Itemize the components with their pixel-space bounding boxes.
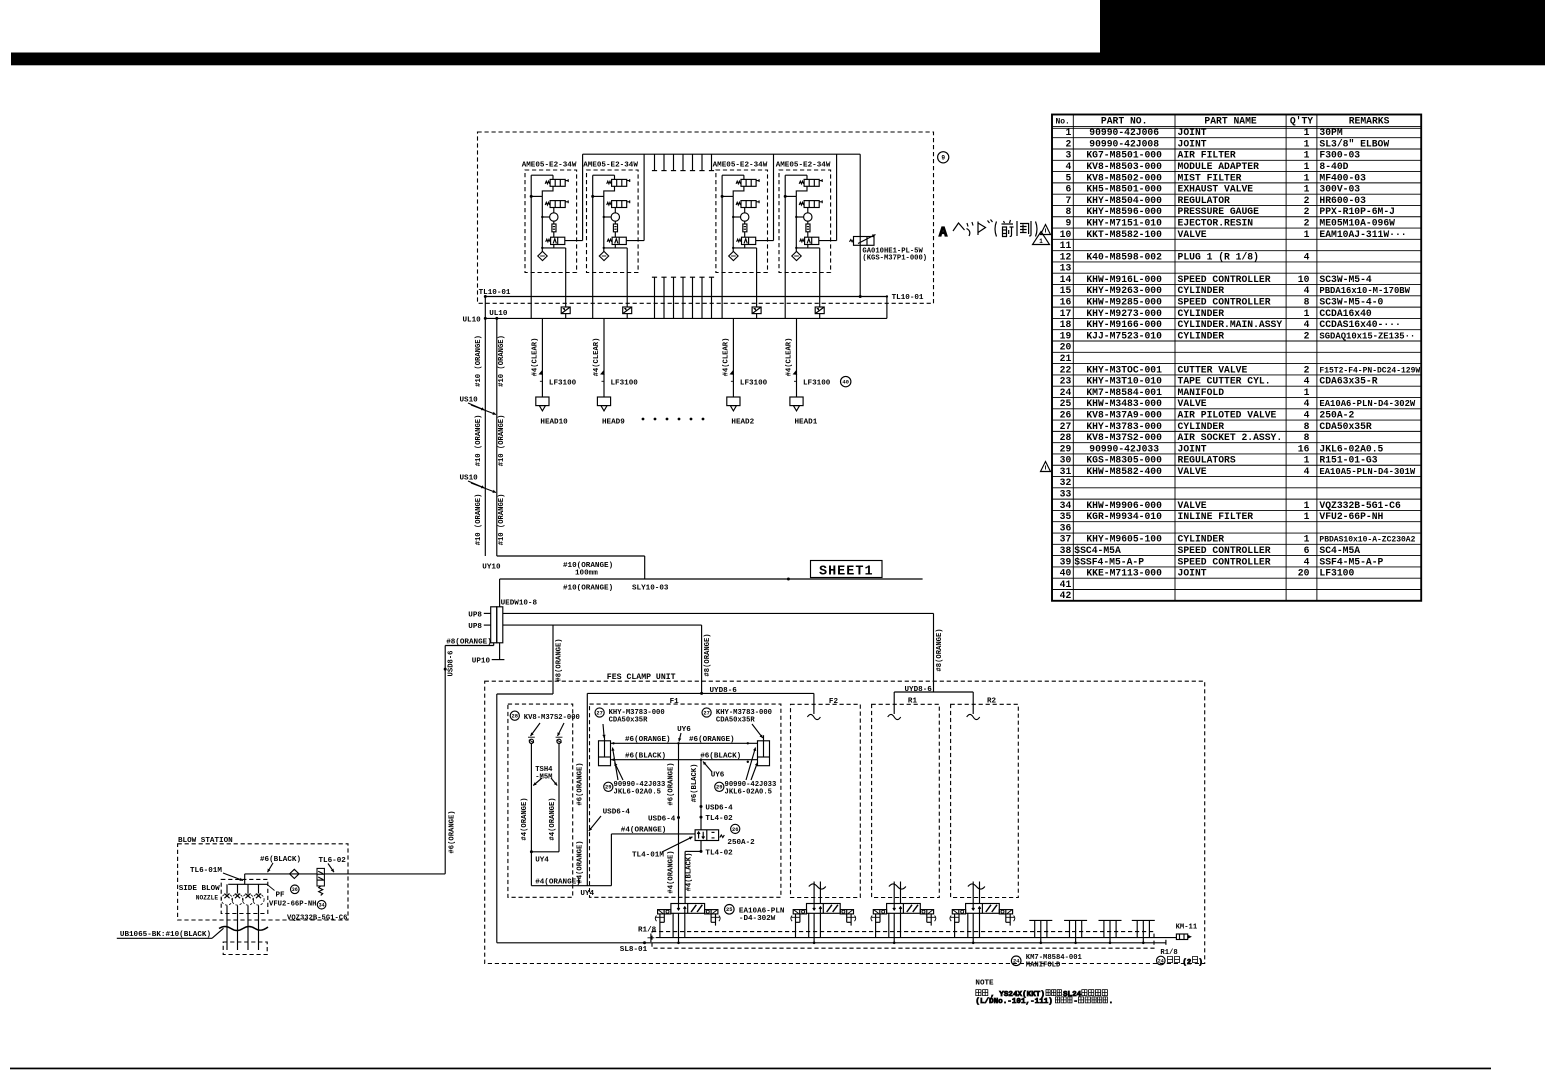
svg-text:1: 1: [1304, 387, 1310, 398]
wire UP8 lower run: [503, 624, 702, 626]
svg-text:#6(ORANGE): #6(ORANGE): [668, 762, 676, 805]
svg-text:EAM10AJ-311W···: EAM10AJ-311W···: [1319, 229, 1406, 240]
joint KM-11: [1166, 924, 1198, 945]
svg-text:AIR PILOTED VALVE: AIR PILOTED VALVE: [1178, 409, 1277, 420]
filter VFU2-66P-NH: [268, 868, 348, 922]
svg-text:AME05-E2-34W: AME05-E2-34W: [522, 162, 577, 170]
svg-text:12: 12: [1060, 251, 1072, 262]
svg-text:#10(ORANGE): #10(ORANGE): [563, 585, 613, 593]
wire UYD8-6 header F1-F2: [587, 693, 814, 885]
svg-text:KHY-M3783-000: KHY-M3783-000: [1086, 421, 1162, 432]
svg-text:#4(CLEAR): #4(CLEAR): [722, 338, 730, 377]
svg-text:#6(ORANGE): #6(ORANGE): [689, 736, 735, 744]
svg-text:UEDW10-8: UEDW10-8: [501, 599, 538, 607]
joint labels 90990-42J033 right: [715, 748, 777, 797]
svg-text:NOTE: NOTE: [975, 979, 994, 987]
manifold solid rail: [656, 937, 1177, 939]
svg-text:4: 4: [1304, 285, 1310, 296]
svg-text:29: 29: [605, 785, 611, 791]
wire #8 orange to blow station: [444, 639, 494, 874]
svg-text:#10 (ORANGE): #10 (ORANGE): [498, 494, 506, 546]
svg-text:4: 4: [1304, 556, 1310, 567]
svg-text:2: 2: [1304, 206, 1310, 217]
svg-text:JOINT: JOINT: [1178, 127, 1207, 138]
wire TL6 line: [190, 856, 445, 881]
node UY6 upper: [677, 726, 691, 745]
svg-text:41: 41: [1060, 579, 1072, 590]
feed drop R2: [967, 692, 980, 720]
svg-text:31: 31: [1060, 466, 1072, 477]
svg-text:4: 4: [1065, 161, 1071, 172]
node US10 lower: [460, 475, 497, 493]
svg-text:11: 11: [1060, 240, 1072, 251]
svg-text:R151-01-G3: R151-01-G3: [1319, 455, 1377, 466]
svg-text:CYLINDER: CYLINDER: [1178, 534, 1225, 545]
svg-text:KG7-M8501-000: KG7-M8501-000: [1086, 150, 1162, 161]
A-head enclosure dashed box: [478, 132, 934, 303]
svg-text:1: 1: [1304, 500, 1310, 511]
svg-text:#4(CLEAR): #4(CLEAR): [593, 338, 601, 377]
svg-text:14: 14: [1060, 274, 1072, 285]
head drop HEAD1: [786, 318, 831, 426]
solenoid valve group 3 AME05-E2-34W: [713, 154, 774, 318]
svg-text:EXHAUST VALVE: EXHAUST VALVE: [1178, 184, 1254, 195]
svg-text:#10 (ORANGE): #10 (ORANGE): [475, 494, 483, 546]
svg-text:#4(ORANGE): #4(ORANGE): [549, 797, 557, 840]
svg-text:EJECTOR.RESIN: EJECTOR.RESIN: [1178, 217, 1254, 228]
parts table rows: [1060, 127, 1421, 601]
svg-text:.: .: [1109, 998, 1114, 1006]
svg-text:#6(BLACK): #6(BLACK): [700, 752, 741, 760]
svg-text:15: 15: [1060, 285, 1072, 296]
svg-text:9: 9: [941, 155, 945, 162]
wire UP10 stub: [472, 643, 505, 666]
head drop HEAD9: [593, 318, 638, 426]
svg-text:VALVE: VALVE: [1178, 229, 1207, 240]
svg-text:JKL6-02A0.5: JKL6-02A0.5: [614, 789, 661, 797]
svg-text:F300-03: F300-03: [1319, 150, 1360, 161]
wire UL10 bus: [463, 310, 887, 324]
svg-text:SGDAQ10x15-ZE135··: SGDAQ10x15-ZE135··: [1319, 331, 1415, 341]
svg-text:#4(CLEAR): #4(CLEAR): [531, 338, 539, 377]
feed drop F2: [807, 693, 820, 719]
svg-text:28: 28: [512, 714, 518, 720]
svg-text:TL10-01: TL10-01: [892, 294, 924, 302]
svg-text:1: 1: [1304, 172, 1310, 183]
svg-text:KHY-M9166-000: KHY-M9166-000: [1086, 319, 1162, 330]
svg-text:UP8: UP8: [468, 623, 482, 631]
inline filter diamond: [290, 869, 299, 878]
svg-text:HEAD2: HEAD2: [731, 418, 754, 426]
svg-text:CYLINDER: CYLINDER: [1178, 285, 1225, 296]
label USD6-4 left: [589, 809, 631, 832]
solenoid valve V4 EA10A6: [950, 904, 1015, 945]
svg-text:#4(ORANGE): #4(ORANGE): [521, 797, 529, 840]
svg-text:KHY-M3T10-010: KHY-M3T10-010: [1086, 376, 1162, 387]
svg-text:LF3100: LF3100: [611, 379, 639, 387]
svg-text:8: 8: [1304, 297, 1310, 308]
svg-text:#4(ORANGE): #4(ORANGE): [535, 878, 581, 886]
svg-text:27: 27: [596, 710, 602, 716]
svg-text:R1/8: R1/8: [638, 926, 657, 934]
svg-text:AIR SOCKET 2.ASSY.: AIR SOCKET 2.ASSY.: [1178, 432, 1283, 443]
wire #6 black drop: [691, 760, 733, 830]
table caution triangle row10: [1041, 225, 1051, 235]
svg-text:36: 36: [1060, 522, 1072, 533]
svg-text:32: 32: [1060, 477, 1072, 488]
svg-text:24: 24: [1060, 387, 1072, 398]
svg-text:VQZ332B-5G1-C6: VQZ332B-5G1-C6: [1319, 500, 1401, 511]
svg-text:#10 (ORANGE): #10 (ORANGE): [498, 335, 506, 387]
parts table header: [1055, 116, 1389, 127]
svg-text:KGR-M9934-010: KGR-M9934-010: [1086, 511, 1162, 522]
svg-text:MIST FILTER: MIST FILTER: [1178, 172, 1242, 183]
svg-text:AIR FILTER: AIR FILTER: [1178, 150, 1236, 161]
svg-text:1: 1: [1039, 238, 1043, 245]
svg-text:LF3100: LF3100: [1319, 568, 1354, 579]
svg-text:42: 42: [1060, 590, 1072, 601]
svg-text:KV8-M37S2-000: KV8-M37S2-000: [524, 714, 580, 722]
svg-text:CDA50x35R: CDA50x35R: [716, 716, 756, 724]
SHEET1 reference box: [811, 561, 883, 580]
svg-text:KV8-M8502-000: KV8-M8502-000: [1086, 172, 1162, 183]
svg-text:2: 2: [1304, 330, 1310, 341]
wire #6 orange drop: [648, 743, 680, 904]
svg-text:-M5M: -M5M: [535, 773, 552, 781]
NOTE text: [975, 979, 1113, 1006]
svg-text:6: 6: [1304, 545, 1310, 556]
svg-text:REGULATORS: REGULATORS: [1178, 455, 1236, 466]
svg-text:33: 33: [1060, 489, 1072, 500]
svg-text:#6(BLACK): #6(BLACK): [260, 856, 301, 864]
svg-text:PLUG 1 (R 1/8): PLUG 1 (R 1/8): [1178, 251, 1259, 262]
manifold stub 1: [1029, 920, 1052, 944]
svg-text:#4(ORANGE): #4(ORANGE): [668, 850, 676, 893]
wire #6 black cylinder line: [611, 752, 758, 763]
lower stub ticks to UL10: [652, 277, 714, 318]
svg-text:EA10A5-PLN-D4-301W: EA10A5-PLN-D4-301W: [1319, 467, 1416, 477]
manifold label KM7-M8584-001: [1011, 954, 1082, 969]
svg-text:USD6-4: USD6-4: [705, 804, 733, 812]
svg-text:No.: No.: [1055, 118, 1069, 127]
svg-text:21: 21: [1060, 353, 1072, 364]
svg-text:VQZ332B-5G1-C6: VQZ332B-5G1-C6: [287, 915, 347, 923]
manifold stub 2: [1064, 920, 1087, 944]
svg-text:CDA63x35-R: CDA63x35-R: [1319, 376, 1377, 387]
head drop HEAD10: [531, 318, 576, 426]
svg-text:UP8: UP8: [468, 611, 482, 619]
svg-text:TL4-02: TL4-02: [705, 849, 733, 857]
svg-text:KV8-M8503-000: KV8-M8503-000: [1086, 161, 1162, 172]
svg-text:AME05-E2-34W: AME05-E2-34W: [776, 162, 831, 170]
tubes TSH4-M5M: [521, 743, 559, 864]
svg-text:26: 26: [732, 827, 738, 833]
svg-text:PBDAS10x10-A-ZC230A2: PBDAS10x10-A-ZC230A2: [1319, 536, 1415, 545]
svg-text:KV8-M37S2-000: KV8-M37S2-000: [1086, 432, 1162, 443]
svg-text:KHY-M3TOC-001: KHY-M3TOC-001: [1086, 364, 1162, 375]
wire #6 orange cylinder line: [611, 736, 758, 745]
svg-text:34: 34: [319, 903, 325, 909]
svg-text:4: 4: [1304, 251, 1310, 262]
svg-text:8-40D: 8-40D: [1319, 161, 1348, 172]
top bus stub ticks: [652, 154, 714, 170]
break and drop R1: [889, 882, 906, 904]
svg-text:25: 25: [726, 907, 732, 913]
wire TL4-02 to black drop: [685, 841, 733, 904]
svg-text:KHY-M8504-000: KHY-M8504-000: [1086, 195, 1162, 206]
svg-text:CDA50x35R: CDA50x35R: [609, 716, 649, 724]
svg-text:#4(BLACK): #4(BLACK): [686, 853, 694, 892]
svg-text:18: 18: [1060, 319, 1072, 330]
node US10 upper: [460, 397, 497, 415]
dashed box air socket group: [508, 704, 573, 897]
svg-text:19: 19: [1060, 330, 1072, 341]
svg-text:USD6-4: USD6-4: [603, 809, 631, 817]
svg-text:100mm: 100mm: [575, 570, 598, 578]
svg-text:4: 4: [1304, 398, 1310, 409]
svg-text:1: 1: [1304, 184, 1310, 195]
solenoid valve V3 EA10A6: [871, 904, 936, 945]
svg-text:5: 5: [1065, 172, 1071, 183]
svg-text:1: 1: [1304, 455, 1310, 466]
svg-text:UYD8-6: UYD8-6: [905, 686, 933, 694]
solenoid valve V2 EA10A6: [791, 904, 856, 945]
svg-text:28: 28: [1060, 432, 1072, 443]
svg-text:13: 13: [1060, 263, 1072, 274]
cylinder KHY-M3783-000 right: [702, 708, 772, 766]
FES CLAMP UNIT enclosure: [485, 673, 1205, 963]
svg-text:SIDE BLOW: SIDE BLOW: [179, 885, 220, 893]
svg-text:CYLINDER.MAIN.ASSY: CYLINDER.MAIN.ASSY: [1178, 319, 1283, 330]
svg-text:HEAD9: HEAD9: [602, 418, 625, 426]
svg-text:#4(ORANGE): #4(ORANGE): [576, 840, 584, 883]
svg-text:SPEED CONTROLLER: SPEED CONTROLLER: [1178, 297, 1271, 308]
svg-text:24: 24: [1013, 959, 1020, 965]
BLOW STATION enclosure: [178, 837, 348, 920]
pilot supply top bus: [583, 153, 861, 155]
wire UY4: [531, 834, 611, 898]
svg-text:24: 24: [1158, 958, 1164, 964]
svg-text:$SSF4-M5-A-P: $SSF4-M5-A-P: [1074, 556, 1144, 567]
wire UP8 upper run: [503, 612, 934, 614]
svg-text:USD6-4: USD6-4: [648, 816, 676, 824]
balloon 9: [938, 152, 949, 163]
svg-text:SPEED CONTROLLER: SPEED CONTROLLER: [1178, 545, 1271, 556]
label UB1065-BK: [117, 928, 224, 939]
svg-text:KHY-M7151-010: KHY-M7151-010: [1086, 217, 1162, 228]
svg-text:UY4: UY4: [535, 857, 549, 865]
break and drop F2: [809, 882, 826, 904]
svg-text:1: 1: [1304, 229, 1310, 240]
svg-text:#8(ORANGE): #8(ORANGE): [936, 628, 944, 671]
svg-text:KHW-M3483-000: KHW-M3483-000: [1086, 398, 1162, 409]
feed drop R1: [888, 692, 901, 720]
svg-text:F15T2-F4-PN-DC24-129W: F15T2-F4-PN-DC24-129W: [1319, 366, 1420, 375]
svg-text:TL4-01M: TL4-01M: [632, 851, 664, 859]
svg-text:#8(ORANGE): #8(ORANGE): [555, 638, 563, 681]
svg-text:HR600-03: HR600-03: [1319, 195, 1366, 206]
pilot valve GA010HE1-PL-5W: [850, 154, 928, 298]
svg-text:PART NAME: PART NAME: [1204, 116, 1257, 127]
svg-text:PPX-R10P-6M-J: PPX-R10P-6M-J: [1319, 206, 1395, 217]
svg-text:KV8-M37A9-000: KV8-M37A9-000: [1086, 409, 1162, 420]
svg-text:#8(ORANGE): #8(ORANGE): [704, 633, 712, 676]
manifold stub 3: [1099, 920, 1122, 944]
svg-text:TL6-01M: TL6-01M: [190, 867, 222, 875]
wire #8 orange drop to UYD8-6 no2: [905, 613, 945, 694]
svg-text:KHY-M9273-000: KHY-M9273-000: [1086, 308, 1162, 319]
svg-text:SC4-M5A: SC4-M5A: [1319, 545, 1360, 556]
manifold dashed outline: [652, 932, 1154, 949]
svg-text:TAPE CUTTER CYL.: TAPE CUTTER CYL.: [1178, 376, 1271, 387]
svg-text:3: 3: [1065, 150, 1071, 161]
svg-text:2: 2: [1304, 195, 1310, 206]
svg-text:SC3W-M5-4: SC3W-M5-4: [1319, 274, 1372, 285]
svg-text:UB1065-BK:#10(BLACK): UB1065-BK:#10(BLACK): [120, 931, 211, 939]
svg-text:16: 16: [1298, 443, 1310, 454]
svg-text:SSF4-M5-A-P: SSF4-M5-A-P: [1319, 556, 1383, 567]
label A-head (front side) japanese: [939, 220, 1037, 242]
filter UEDW10-8: [468, 599, 537, 643]
svg-text:4: 4: [1304, 319, 1310, 330]
svg-text:Q'TY: Q'TY: [1290, 116, 1313, 127]
svg-text:HEAD1: HEAD1: [795, 418, 818, 426]
svg-text:(2: (2: [1183, 959, 1192, 967]
svg-text:1: 1: [1304, 138, 1310, 149]
head drop HEAD2: [722, 318, 767, 426]
svg-text:4: 4: [1304, 409, 1310, 420]
svg-text:36: 36: [292, 887, 298, 893]
svg-text:17: 17: [1060, 308, 1072, 319]
svg-text:(KGS-M37P1-000): (KGS-M37P1-000): [862, 254, 927, 262]
side blow nozzle bank: [179, 874, 268, 927]
svg-text:35: 35: [1060, 511, 1072, 522]
svg-text:8: 8: [1304, 421, 1310, 432]
svg-text:8: 8: [1304, 432, 1310, 443]
svg-text:PRESSURE GAUGE: PRESSURE GAUGE: [1178, 206, 1260, 217]
svg-text:MANIFOLD: MANIFOLD: [1178, 387, 1225, 398]
svg-text:AME05-E2-34W: AME05-E2-34W: [713, 162, 768, 170]
wire #8 orange drop to UYD8-6 no1: [700, 625, 737, 695]
svg-text:90990-42J033: 90990-42J033: [1089, 443, 1159, 454]
svg-text:KHW-M9906-000: KHW-M9906-000: [1086, 500, 1162, 511]
break and drop R2: [968, 882, 985, 904]
svg-text:KHW-M916L-000: KHW-M916L-000: [1086, 274, 1162, 285]
svg-text:SPEED CONTROLLER: SPEED CONTROLLER: [1178, 274, 1271, 285]
caution triangle 1: [1033, 232, 1050, 246]
svg-text:UL10: UL10: [463, 317, 482, 325]
svg-text:PART NO.: PART NO.: [1101, 116, 1148, 127]
svg-text:#6(BLACK): #6(BLACK): [625, 752, 666, 760]
svg-text:30: 30: [1060, 455, 1072, 466]
svg-text:25: 25: [1060, 398, 1072, 409]
svg-text:KM-11: KM-11: [1176, 924, 1198, 932]
svg-text:CYLINDER: CYLINDER: [1178, 308, 1225, 319]
svg-text:20: 20: [1060, 342, 1072, 353]
joint labels 90990-42J033 left: [604, 748, 666, 797]
svg-text:38: 38: [1060, 545, 1072, 556]
wire to pilot valve TL4-01M: [576, 762, 695, 883]
svg-text:34: 34: [1060, 500, 1072, 511]
svg-text:1: 1: [1304, 308, 1310, 319]
svg-text:ME05M10A-096W: ME05M10A-096W: [1319, 217, 1395, 228]
svg-text:JOINT: JOINT: [1178, 568, 1207, 579]
svg-text:8: 8: [1065, 206, 1071, 217]
svg-text:REGULATOR: REGULATOR: [1178, 195, 1231, 206]
svg-text:2: 2: [1304, 364, 1310, 375]
svg-text:CYLINDER: CYLINDER: [1178, 330, 1225, 341]
border line bottom: [10, 1068, 1491, 1070]
svg-text:250A-2: 250A-2: [1319, 409, 1354, 420]
svg-text:(L/DNo.-101,-111): (L/DNo.-101,-111): [975, 998, 1052, 1006]
svg-text:VALVE: VALVE: [1178, 500, 1207, 511]
svg-text:KKE-M7113-000: KKE-M7113-000: [1086, 568, 1162, 579]
svg-text:37: 37: [1060, 534, 1072, 545]
svg-text:23: 23: [1060, 376, 1072, 387]
svg-text:K40-M8598-002: K40-M8598-002: [1086, 251, 1162, 262]
svg-text:KM7-M8584-001: KM7-M8584-001: [1086, 387, 1162, 398]
svg-text:R1/8: R1/8: [1160, 949, 1177, 957]
wire TL10-01 bus: [479, 289, 924, 318]
solenoid valve group 2 AME05-E2-34W: [583, 154, 644, 318]
dashed box F1: [590, 698, 781, 897]
svg-text:27: 27: [1060, 421, 1072, 432]
svg-text:SPEED CONTROLLER: SPEED CONTROLLER: [1178, 556, 1271, 567]
svg-text:$SC4-M5A: $SC4-M5A: [1074, 545, 1121, 556]
dashed box F2: [791, 698, 861, 898]
svg-text:1: 1: [1304, 511, 1310, 522]
svg-text:A: A: [939, 226, 948, 241]
valve label EA10A6: [725, 905, 785, 923]
svg-text:AME05-E2-34W: AME05-E2-34W: [583, 162, 638, 170]
wire supply feed left pair: [475, 297, 506, 557]
svg-text:30PM: 30PM: [1319, 127, 1342, 138]
svg-text:UY6: UY6: [711, 771, 725, 779]
label R1/8 right: [1157, 949, 1203, 967]
svg-text:MANIFOLD: MANIFOLD: [1026, 961, 1061, 969]
svg-text:CUTTER VALVE: CUTTER VALVE: [1178, 364, 1248, 375]
svg-text:SHEET1: SHEET1: [819, 564, 874, 579]
svg-text:1: 1: [1304, 161, 1310, 172]
svg-text:4: 4: [1304, 466, 1310, 477]
table caution triangle row31: [1041, 462, 1051, 472]
svg-text:#6(ORANGE): #6(ORANGE): [576, 762, 584, 805]
cylinder KHY-M3783-000 left: [595, 708, 665, 766]
svg-text:KJJ-M7523-010: KJJ-M7523-010: [1086, 330, 1162, 341]
svg-text:10: 10: [1298, 274, 1310, 285]
svg-text:HEAD10: HEAD10: [540, 418, 568, 426]
svg-text:#10 (ORANGE): #10 (ORANGE): [475, 335, 483, 387]
svg-text:16: 16: [1060, 297, 1072, 308]
balloon 40: [841, 376, 851, 386]
svg-text:VFU2-66P-NH: VFU2-66P-NH: [269, 900, 316, 908]
svg-text:#6(ORANGE): #6(ORANGE): [625, 736, 671, 744]
air socket pair KV8-M37S2-000: [510, 711, 580, 743]
svg-text:TL6-02: TL6-02: [319, 857, 347, 865]
svg-text:1: 1: [1065, 127, 1071, 138]
parts table grid: [1052, 115, 1421, 601]
svg-text:USD8-6: USD8-6: [448, 651, 456, 677]
dashed box R1: [872, 697, 940, 897]
svg-text:KKT-M8582-100: KKT-M8582-100: [1086, 229, 1162, 240]
svg-text:26: 26: [1060, 409, 1072, 420]
wire SLY10-03: [500, 578, 923, 607]
svg-text:39: 39: [1060, 556, 1072, 567]
svg-text:27: 27: [703, 710, 709, 716]
svg-text:PBDA16x10-M-170BW: PBDA16x10-M-170BW: [1319, 286, 1410, 296]
svg-text:-: -: [1073, 998, 1078, 1006]
svg-text:1: 1: [1304, 127, 1310, 138]
